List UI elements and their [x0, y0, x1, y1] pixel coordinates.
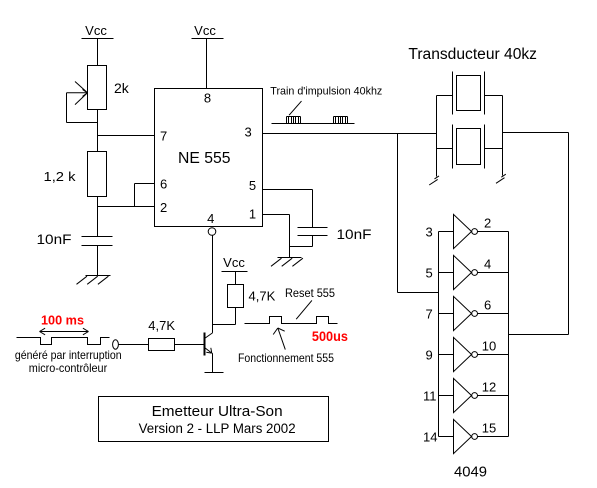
svg-text:micro-contrôleur: micro-contrôleur	[29, 361, 107, 375]
svg-text:Transducteur 40kz: Transducteur 40kz	[408, 46, 537, 63]
svg-text:3: 3	[426, 225, 433, 240]
svg-text:15: 15	[482, 421, 496, 436]
svg-text:généré par interruption: généré par interruption	[15, 348, 122, 362]
inverter U2F (14 -> 15)	[439, 419, 509, 453]
svg-text:Reset 555: Reset 555	[285, 286, 335, 300]
wire pin 1	[263, 215, 313, 258]
svg-text:5: 5	[249, 178, 256, 193]
title box	[99, 397, 329, 442]
inverter U2D (9 -> 10)	[439, 337, 509, 371]
wire input to base resistor	[119, 344, 149, 346]
svg-text:NE 555: NE 555	[178, 150, 231, 167]
potentiometer wiper arrow	[67, 82, 98, 123]
resistor R3 4,7K (pull-up)	[228, 285, 276, 308]
inverter U2E (11 -> 12)	[439, 378, 509, 412]
svg-text:14: 14	[423, 430, 437, 445]
svg-text:5: 5	[426, 266, 433, 281]
svg-text:3: 3	[245, 125, 252, 140]
wire right bus to 4049 outputs	[503, 133, 569, 335]
wire pin 2	[98, 206, 155, 208]
svg-text:Vcc: Vcc	[85, 23, 107, 38]
inverter U2B (5 -> 4)	[439, 255, 509, 289]
svg-text:Version 2 - LLP Mars 2002: Version 2 - LLP Mars 2002	[139, 421, 296, 436]
node input terminal (o)	[113, 340, 119, 349]
wire 4049 output bus	[508, 232, 510, 437]
wire transducer right bus	[502, 96, 504, 176]
svg-text:4049: 4049	[454, 464, 487, 481]
svg-text:4,7K: 4,7K	[249, 289, 276, 304]
label Train d'impulsion 40khz	[270, 86, 382, 116]
wire pin3 tee down to 4049 inputs	[398, 134, 439, 293]
potentiometer R1 2k	[88, 66, 130, 110]
label généré par interruption micro-contrôleur	[15, 348, 122, 375]
wire pin 6 stub	[135, 184, 155, 207]
svg-text:11: 11	[423, 389, 437, 404]
svg-text:10: 10	[482, 339, 496, 354]
waveform micro-controller pulses	[17, 338, 110, 345]
svg-text:2: 2	[160, 200, 167, 215]
wire base resistor to transistor	[175, 344, 205, 346]
ground (emitter)	[205, 372, 224, 374]
svg-text:Fonctionnement 555: Fonctionnement 555	[238, 351, 334, 365]
power Vcc (reset branch)	[222, 255, 248, 285]
svg-text:4: 4	[207, 211, 214, 226]
resistor R2 1,2 k	[44, 152, 107, 197]
IC U1 NE 555	[155, 89, 263, 227]
wire transducer left bus	[436, 96, 438, 177]
ground (right)	[271, 258, 303, 267]
power Vcc (2k branch)	[82, 23, 114, 66]
power Vcc (pin 8)	[192, 23, 224, 89]
svg-text:12: 12	[482, 380, 496, 395]
capacitor C1 10nF (left)	[37, 231, 113, 247]
capacitor C2 10nF (right)	[298, 226, 372, 242]
transducer TR2 (lower)	[437, 125, 503, 169]
connector (left)	[429, 176, 439, 185]
waveform pulse train 40khz	[272, 117, 355, 124]
wire collector tee to 4,7K	[213, 308, 236, 325]
pin 4 bubble node	[208, 228, 216, 236]
svg-text:Vcc: Vcc	[223, 255, 245, 270]
wire pin 5	[263, 190, 313, 228]
svg-text:6: 6	[160, 177, 167, 192]
wire 4049 input bus	[438, 232, 440, 437]
svg-text:1,2 k: 1,2 k	[44, 169, 77, 184]
svg-text:7: 7	[160, 129, 167, 144]
transistor Q1	[205, 333, 213, 373]
svg-text:2: 2	[484, 216, 491, 231]
inverter U2A (3 -> 2)	[439, 214, 509, 248]
svg-text:Vcc: Vcc	[194, 23, 216, 38]
svg-text:6: 6	[484, 298, 491, 313]
connector (right)	[496, 174, 506, 183]
wire pin 7	[98, 135, 155, 137]
inverter U2C (7 -> 6)	[439, 296, 509, 330]
svg-text:9: 9	[426, 348, 433, 363]
svg-text:7: 7	[426, 307, 433, 322]
ground (left)	[77, 276, 111, 285]
transducer TR1 (upper)	[437, 72, 503, 115]
svg-text:2k: 2k	[114, 80, 130, 96]
wire pin 4 down to transistor collector	[212, 236, 214, 333]
wire 1,2k bottom to capacitor	[97, 197, 99, 237]
label Reset 555	[285, 286, 335, 319]
arrow 100 ms span	[40, 328, 89, 335]
svg-text:10nF: 10nF	[337, 226, 372, 242]
svg-text:4: 4	[484, 257, 491, 272]
svg-text:10nF: 10nF	[37, 231, 72, 247]
wire 2k bottom to 1,2k top	[97, 110, 99, 152]
resistor R4 4,7K (base)	[148, 318, 175, 351]
svg-text:4,7K: 4,7K	[148, 318, 175, 333]
svg-text:1: 1	[249, 207, 256, 222]
svg-text:Emetteur Ultra-Son: Emetteur Ultra-Son	[152, 403, 283, 420]
arrow Fonctionnement	[273, 328, 285, 350]
svg-text:Train d'impulsion 40khz: Train d'impulsion 40khz	[270, 86, 382, 98]
svg-text:100 ms: 100 ms	[41, 313, 84, 328]
wire capacitor to ground	[97, 246, 99, 276]
svg-text:500us: 500us	[312, 328, 348, 344]
waveform Reset 555	[245, 317, 338, 324]
wire pin 3 output	[263, 133, 437, 135]
svg-text:8: 8	[204, 91, 211, 106]
